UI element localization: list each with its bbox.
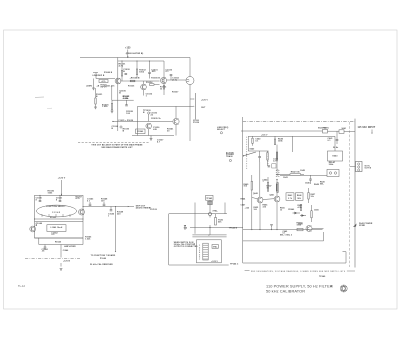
resistor R1036B xyxy=(111,103,112,109)
svg-text:R1037: R1037 xyxy=(172,91,179,93)
wire mid rail B xyxy=(35,218,84,220)
svg-text:R1035 B: R1035 B xyxy=(151,77,160,79)
svg-text:1k: 1k xyxy=(280,209,282,211)
svg-text:30: 30 xyxy=(167,130,170,132)
svg-text:+125 B: +125 B xyxy=(150,209,157,211)
wire right collector rail lower xyxy=(189,85,191,142)
svg-text:50 kHz CAL REMOVED: 50 kHz CAL REMOVED xyxy=(90,263,113,266)
wire osc outer box xyxy=(169,214,229,265)
wire lower box line xyxy=(243,240,324,242)
svg-text:C645: C645 xyxy=(300,169,305,172)
svg-text:8: 8 xyxy=(36,199,38,201)
capacitor C1044 stub xyxy=(44,245,46,248)
svg-text:100k: 100k xyxy=(48,192,54,194)
resistor R642 xyxy=(290,174,301,176)
svg-text:L28: L28 xyxy=(153,129,158,131)
pin 1 arrow xyxy=(190,98,193,100)
svg-text:(DEF): (DEF) xyxy=(87,86,93,88)
svg-text:3: 3 xyxy=(199,250,200,252)
node faint handwriting xyxy=(35,96,44,99)
svg-text:OUTPUT IS CONNECTED: OUTPUT IS CONNECTED xyxy=(174,246,198,248)
wire divider xyxy=(111,85,113,100)
resistor R647 xyxy=(276,184,277,191)
wire output rail B xyxy=(83,206,134,208)
wire left rail xyxy=(117,58,119,132)
capacitor C1046 xyxy=(110,207,112,210)
transistor Q1030 xyxy=(115,78,121,84)
transistor Q642 xyxy=(306,226,312,232)
svg-text:7: 7 xyxy=(199,259,200,261)
svg-text:8: 8 xyxy=(56,199,58,201)
svg-text:0.5: 0.5 xyxy=(51,234,55,236)
crystal Y646 xyxy=(209,216,211,218)
wire bias dashed vertical xyxy=(246,137,248,170)
wire osc drop xyxy=(209,228,211,236)
svg-text:1: 1 xyxy=(263,181,264,183)
transistor Q1041 xyxy=(79,209,85,215)
ground error amp xyxy=(150,136,152,139)
svg-text:B: B xyxy=(112,128,114,130)
svg-text:B: B xyxy=(123,130,125,132)
svg-text:TP644 B: TP644 B xyxy=(229,227,238,230)
wire inner bottom D xyxy=(243,262,346,264)
svg-text:6: 6 xyxy=(199,257,200,259)
relay K640 coil box xyxy=(328,151,343,161)
wire block left edge xyxy=(242,117,244,263)
connector J1030 bracket xyxy=(194,93,196,120)
svg-text:+125 V: +125 V xyxy=(261,135,268,137)
svg-text:1.02k: 1.02k xyxy=(85,238,91,240)
connector J1046 xyxy=(60,245,62,258)
svg-text:4.7k: 4.7k xyxy=(119,65,124,68)
resistor R1032A xyxy=(136,61,138,69)
svg-text:REF DESIGNATORS, VOLTAGE READI: REF DESIGNATORS, VOLTAGE READINGS, S WAV… xyxy=(251,270,346,273)
svg-text:R644: R644 xyxy=(241,198,247,201)
junction L640 out xyxy=(276,179,277,180)
wire crystal lead xyxy=(209,205,211,213)
wire Q640 collector column xyxy=(259,162,261,197)
svg-text:5: 5 xyxy=(199,254,200,256)
resistor R640 xyxy=(274,139,275,145)
svg-text:2.7k: 2.7k xyxy=(288,198,292,200)
diode CR640 xyxy=(293,212,301,214)
svg-text:1.02k: 1.02k xyxy=(102,106,108,108)
wire osc inner bottom box xyxy=(197,240,222,263)
ground divider xyxy=(111,109,113,111)
wire TP lead xyxy=(148,114,150,121)
wire error amp bottom xyxy=(132,135,174,137)
transistor Q1034 xyxy=(146,123,152,129)
wire bottom rail B xyxy=(35,237,84,239)
IC U645 pin stack xyxy=(203,243,208,260)
svg-text:+125 B: +125 B xyxy=(63,261,70,263)
wire J640 stub xyxy=(350,166,356,168)
fuse F641 xyxy=(323,129,328,133)
svg-text:INPUT: INPUT xyxy=(101,86,108,88)
svg-text:0.1: 0.1 xyxy=(87,201,91,203)
svg-text:C643: C643 xyxy=(283,176,288,179)
transistor Q1040 xyxy=(30,226,36,232)
svg-text:+R1035 B: +R1035 B xyxy=(130,77,140,79)
svg-text:TO FUNCTION ? BOARD: TO FUNCTION ? BOARD xyxy=(91,254,116,257)
svg-text:R1040: R1040 xyxy=(137,130,143,133)
svg-text:R648: R648 xyxy=(297,194,302,197)
resistor R652 xyxy=(300,205,301,211)
inductor L640 xyxy=(276,170,279,171)
svg-text:4.02k: 4.02k xyxy=(123,97,129,100)
note assembly dashed xyxy=(78,142,150,144)
svg-text:1 2 3 4 5: 1 2 3 4 5 xyxy=(52,211,60,214)
transistor Q1032 xyxy=(160,77,166,83)
wire xfmr arrow xyxy=(353,224,357,228)
svg-text:TP644 C: TP644 C xyxy=(230,263,239,266)
svg-text:B: B xyxy=(119,93,121,95)
wire top supply rail xyxy=(80,57,190,59)
note dash-dot left xyxy=(25,258,80,260)
svg-text:XTAL: XTAL xyxy=(213,210,219,213)
svg-text:100k: 100k xyxy=(139,71,145,73)
transistor Q640 xyxy=(257,197,263,203)
svg-text:50 Hz: 50 Hz xyxy=(333,147,338,149)
resistor R651 xyxy=(311,211,312,218)
wire input xyxy=(93,72,98,74)
svg-text:XTAL: XTAL xyxy=(213,245,218,248)
svg-text:S641: S641 xyxy=(342,127,347,130)
wire out arrow xyxy=(128,206,129,207)
svg-text:+125: +125 xyxy=(125,48,131,50)
svg-text:LINE/DEF B: LINE/DEF B xyxy=(93,75,105,77)
svg-text:SEL: SEL xyxy=(320,184,325,186)
svg-text:SEL 1 SEL 2: SEL 1 SEL 2 xyxy=(280,234,292,236)
wire base rail xyxy=(121,80,160,82)
wire chassis top dash-dot xyxy=(243,121,355,123)
crystal box XTAL2 xyxy=(212,245,218,249)
wire chassis dashed right xyxy=(349,122,351,267)
transistor Q641 xyxy=(274,196,280,202)
wire Q641 emitter column xyxy=(276,202,278,230)
resistor R1033 xyxy=(130,80,135,82)
wire R645 column to rail xyxy=(251,197,253,230)
wire inner bias rail xyxy=(118,60,164,62)
svg-text:330: 330 xyxy=(263,206,266,208)
svg-text:CR640: CR640 xyxy=(288,208,294,211)
diode CR641 xyxy=(300,215,306,217)
resistor R648 box xyxy=(296,193,304,201)
resistor R1036 xyxy=(163,84,165,86)
wire osc inner right xyxy=(224,203,226,214)
wire branch to R642 xyxy=(277,174,290,176)
svg-text:R1040 B: R1040 B xyxy=(104,71,113,74)
svg-text:TL-12: TL-12 xyxy=(18,285,26,288)
wire osc double rail upper xyxy=(192,234,226,236)
svg-text:1: 1 xyxy=(108,216,109,218)
switch S641 box xyxy=(339,130,344,134)
wire Q1035 collector xyxy=(175,106,177,118)
svg-text:C646: C646 xyxy=(305,182,310,185)
svg-text:AMPLIFIER: AMPLIFIER xyxy=(64,245,76,248)
svg-text:1k: 1k xyxy=(160,89,163,91)
svg-text:C650: C650 xyxy=(314,209,319,211)
capacitor C1048 out xyxy=(103,203,106,205)
resistor R1034 xyxy=(149,84,154,86)
transistor Q1033 series pass xyxy=(186,77,194,85)
resistor R641b xyxy=(267,151,269,153)
svg-text:.001: .001 xyxy=(151,71,156,73)
svg-text:22: 22 xyxy=(151,115,154,117)
capacitor C644 xyxy=(267,183,268,192)
relay aux box xyxy=(272,164,276,168)
wire switch link dashed xyxy=(267,151,269,168)
relay K640 contacts box xyxy=(327,169,339,176)
svg-text:Q640: Q640 xyxy=(253,192,258,195)
resistor R1040 box xyxy=(136,129,145,134)
svg-text:100: 100 xyxy=(101,201,105,203)
svg-text:R1039 1k: R1039 1k xyxy=(151,118,161,120)
svg-text:B: B xyxy=(36,225,38,227)
wire 115vac arrow xyxy=(371,130,373,134)
svg-text:100k: 100k xyxy=(278,141,284,143)
logo symbol xyxy=(340,285,347,292)
test point node xyxy=(120,126,122,128)
wire inner box top D xyxy=(248,135,335,137)
wire error amp top xyxy=(138,105,191,107)
svg-text:J1046: J1046 xyxy=(63,249,69,252)
wire Q1034 emitter xyxy=(148,129,150,136)
svg-text:1: 1 xyxy=(146,96,148,98)
wire error amp left xyxy=(137,106,139,135)
resistor R654 box xyxy=(297,228,303,230)
svg-text:R1044: R1044 xyxy=(55,241,62,244)
junction crystal node xyxy=(209,213,212,216)
svg-text:TRAIN: TRAIN xyxy=(226,155,233,158)
inductor L641 xyxy=(277,183,278,193)
wire Q1035 emitter xyxy=(175,125,177,136)
wire block right edge xyxy=(354,119,356,268)
note ref designators row xyxy=(245,270,250,272)
svg-text:+B: +B xyxy=(97,85,100,87)
svg-text:.05: .05 xyxy=(42,251,45,253)
svg-text:100: 100 xyxy=(254,209,257,211)
svg-text:50k: 50k xyxy=(218,221,222,223)
svg-text:+125 V: +125 V xyxy=(201,100,208,102)
resistor R657 xyxy=(308,193,309,200)
svg-text:S641 50 Hz: S641 50 Hz xyxy=(318,127,329,130)
svg-text:10k: 10k xyxy=(311,196,314,198)
svg-text:+125 V: +125 V xyxy=(211,261,218,263)
resistor R645 xyxy=(251,181,252,190)
wire Q642 tail xyxy=(312,228,324,230)
capacitor C1043 out xyxy=(89,203,92,205)
svg-text:FUNCTION SELECT: FUNCTION SELECT xyxy=(46,206,66,208)
crystal Y645 symbol xyxy=(209,200,211,201)
svg-text:115 VAC INPUT: 115 VAC INPUT xyxy=(358,126,376,129)
wire Q1032 collector xyxy=(167,79,187,81)
test point TP645 box xyxy=(206,195,213,200)
resistor R641 xyxy=(276,152,277,160)
svg-text:+125 V: +125 V xyxy=(58,178,66,180)
svg-text:L1040 16mH: L1040 16mH xyxy=(51,226,63,229)
capacitor C1031 xyxy=(149,61,151,72)
svg-text:C650: C650 xyxy=(298,224,303,226)
svg-text:P1040: P1040 xyxy=(100,257,106,260)
svg-text:2: 2 xyxy=(199,248,200,250)
pin 2 arrow xyxy=(190,105,193,107)
svg-text:TP649: TP649 xyxy=(319,275,326,278)
svg-text:SEE MAIN FRAME PARTS LIST: SEE MAIN FRAME PARTS LIST xyxy=(101,146,133,149)
svg-text:C647: C647 xyxy=(241,204,246,207)
svg-text:P1030: P1030 xyxy=(193,122,199,124)
wire relay feed xyxy=(334,136,336,151)
svg-text:R643: R643 xyxy=(288,194,293,197)
junction dots lower rail xyxy=(251,229,252,230)
junction dots bias rail xyxy=(121,60,122,61)
svg-text:0.1: 0.1 xyxy=(328,140,332,142)
svg-text:SEL: SEL xyxy=(297,198,301,200)
junction dots box B xyxy=(82,206,83,207)
svg-text:S640: S640 xyxy=(250,148,255,151)
capacitor C1034 xyxy=(170,76,172,80)
wire main top rail D xyxy=(241,130,323,132)
capacitor C1032B xyxy=(125,104,128,106)
wire +125 feed xyxy=(127,50,129,58)
svg-text:0.1: 0.1 xyxy=(255,140,259,142)
wire osc inner left xyxy=(194,203,196,234)
svg-text:50Hz: 50Hz xyxy=(329,164,334,166)
svg-text:R1035: R1035 xyxy=(128,86,135,88)
capacitor C641 xyxy=(336,139,339,141)
ground input xyxy=(93,79,95,89)
svg-text:R1042: R1042 xyxy=(50,216,56,219)
capacitor C645 xyxy=(309,178,312,180)
svg-text:Q641: Q641 xyxy=(270,193,275,196)
svg-text:100: 100 xyxy=(126,113,130,115)
svg-text:0.1: 0.1 xyxy=(166,71,170,73)
wire relay rail xyxy=(280,174,327,176)
wire +125 feed B xyxy=(61,180,63,195)
svg-text:OUT: OUT xyxy=(201,107,206,109)
ground J1046 xyxy=(60,268,63,270)
ground mid rail xyxy=(270,224,273,226)
wire Q bases xyxy=(252,198,257,199)
svg-text:10k: 10k xyxy=(244,186,248,188)
svg-text:B: B xyxy=(123,71,125,73)
svg-text:(REGULATOR B): (REGULATOR B) xyxy=(126,52,144,55)
resistor R1043 column xyxy=(95,88,97,98)
capacitor C642 xyxy=(258,156,261,158)
svg-text:K640: K640 xyxy=(333,154,338,157)
svg-text:1: 1 xyxy=(199,245,200,247)
svg-text:1k: 1k xyxy=(267,187,270,189)
inductor L1040 box xyxy=(47,225,66,232)
wire osc double rail lower xyxy=(192,236,226,238)
wire outer bottom B xyxy=(38,238,40,245)
wire osc bottom rail xyxy=(190,227,243,229)
wire lower rail D xyxy=(243,229,323,231)
capacitor C643 xyxy=(268,165,270,167)
svg-text:+125: +125 xyxy=(245,208,250,210)
svg-text:TP645: TP645 xyxy=(206,197,212,200)
svg-text:50 kHz CALIBRATOR: 50 kHz CALIBRATOR xyxy=(266,289,305,294)
wire Q640 emitter column xyxy=(259,203,261,230)
capacitor C640 xyxy=(252,138,253,143)
wire L640 column xyxy=(276,145,278,159)
wire right collector rail upper xyxy=(189,58,191,77)
svg-text:B: B xyxy=(143,112,145,114)
svg-text:OUT B: OUT B xyxy=(365,167,372,169)
switch S640 xyxy=(248,150,268,152)
svg-text:R649: R649 xyxy=(314,183,319,186)
svg-text:220: 220 xyxy=(117,213,120,215)
wire box outline B xyxy=(35,195,84,238)
resistor R643 box xyxy=(286,193,294,201)
wire output drop xyxy=(115,207,117,252)
svg-text:644: 644 xyxy=(184,226,187,229)
svg-text:XFMR: XFMR xyxy=(359,225,365,227)
wire Q1031 tail xyxy=(143,90,145,96)
svg-text:(0.1): (0.1) xyxy=(172,79,177,81)
wire feedback rail xyxy=(112,120,173,122)
wire inner divider vertical xyxy=(292,136,294,152)
wire TP stub xyxy=(184,225,186,230)
transistor Q1031 xyxy=(143,81,145,84)
connector J640 xyxy=(356,162,363,172)
transistor Q1035 xyxy=(173,118,179,124)
switch S1040 rotary xyxy=(37,205,77,217)
svg-text:4: 4 xyxy=(331,283,334,288)
svg-text:+15: +15 xyxy=(111,86,115,88)
svg-text:SELECT: SELECT xyxy=(217,129,226,131)
resistor R1030 input box xyxy=(99,80,108,83)
